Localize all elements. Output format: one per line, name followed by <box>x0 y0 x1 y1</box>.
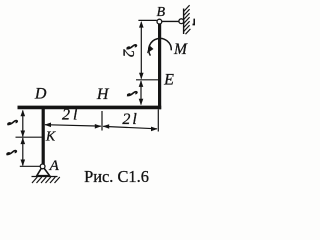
svg-text:H: H <box>96 86 110 103</box>
extension tick at K level <box>16 136 42 138</box>
wire beam D-E horizontal member <box>18 106 162 110</box>
node A ground hatching <box>32 177 60 183</box>
moment M arrowhead <box>145 45 154 55</box>
svg-text:D: D <box>34 86 47 103</box>
extension tick below D <box>43 110 45 128</box>
left dimension line l (beam to K) <box>22 111 24 137</box>
svg-text:2l: 2l <box>62 107 80 124</box>
svg-text:M: M <box>173 41 188 58</box>
extension line at A level <box>20 165 40 167</box>
svg-text:E: E <box>163 71 174 88</box>
wire link B to wall <box>162 20 179 22</box>
moment M arc <box>149 38 172 55</box>
label l (lower left, rotated script ell) <box>6 151 16 155</box>
wall pin circle <box>179 19 184 24</box>
label l (upper left, rotated script ell) <box>7 121 17 125</box>
svg-text:Рис. С1.6: Рис. С1.6 <box>84 167 149 186</box>
svg-text:2: 2 <box>120 49 137 57</box>
dimension line 2l (H to bar) <box>103 126 157 128</box>
svg-text:A: A <box>49 158 60 174</box>
extension tick below right bar <box>157 110 159 132</box>
stray cropped glyph at right edge <box>193 19 196 25</box>
dimension line l (E to beam) <box>140 81 142 105</box>
dimension extension line from B <box>138 19 156 21</box>
wire right bar B-beam <box>158 24 161 110</box>
extension tick below H <box>101 111 103 131</box>
svg-text:B: B <box>157 5 166 20</box>
svg-text:2l: 2l <box>122 111 138 128</box>
node E tick <box>136 79 158 81</box>
wall hatching <box>184 5 191 34</box>
node A support triangle <box>37 168 50 175</box>
wire left column D-A <box>42 106 45 164</box>
left dimension line l (K to A) <box>22 138 24 166</box>
dimension line 2l (D to H) <box>45 125 101 126</box>
node A pin circle <box>40 164 45 169</box>
wall support line <box>183 9 185 35</box>
svg-text:K: K <box>45 130 56 145</box>
dimension line 2l (B to E) <box>140 23 142 79</box>
node A ground line <box>32 176 58 178</box>
label l vertical (right, rotated script ell) <box>127 92 137 96</box>
node B pin circle <box>157 19 162 24</box>
